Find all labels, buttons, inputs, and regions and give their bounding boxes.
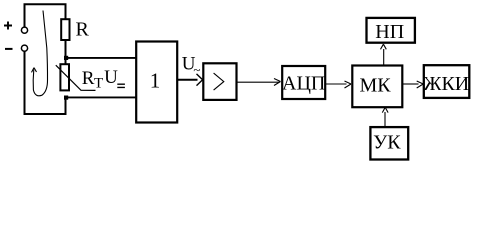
- svg-text:R: R: [76, 18, 90, 40]
- arrowhead into ADC: [274, 79, 281, 86]
- arrowhead into NP: [381, 44, 387, 49]
- svg-text:T: T: [94, 76, 103, 92]
- junction bottom: [64, 96, 68, 100]
- arrowhead into MK: [345, 81, 352, 88]
- block UK (УК): [370, 127, 408, 159]
- wire R to RT: [65, 40, 67, 64]
- wire left-bottom: minus terminal down, along bottom, up to RT: [25, 51, 66, 114]
- svg-text:АЦП: АЦП: [282, 72, 325, 94]
- block 1: [136, 42, 177, 123]
- svg-text:1: 1: [150, 68, 161, 92]
- block NP (НП): [367, 18, 415, 43]
- wire top tap to block 1: [66, 57, 137, 59]
- svg-text:НП: НП: [375, 21, 404, 43]
- block LCD (ЖКИ): [424, 65, 470, 98]
- arrowhead into amp: [197, 74, 203, 86]
- sensor hook curve: [33, 11, 47, 96]
- terminal minus: [21, 45, 27, 51]
- wire bottom tap to block 1: [66, 96, 137, 98]
- thermistor RT: [60, 64, 69, 90]
- block MK (МК): [352, 66, 402, 108]
- svg-text:R: R: [82, 68, 95, 89]
- wire UK to MK: [384, 112, 386, 127]
- svg-text:МК: МК: [359, 74, 391, 96]
- resistor R: [61, 19, 69, 40]
- amplifier symbol: [214, 73, 224, 90]
- wire MK to LCD: [403, 83, 419, 85]
- svg-text:УК: УК: [373, 132, 401, 154]
- wire MK to NP: [383, 49, 385, 65]
- wire top-left: plus terminal up and over to resistor R: [25, 4, 66, 27]
- thermistor diagonal: [56, 65, 96, 90]
- wire block1 to amp: [178, 79, 198, 81]
- arrowhead into LCD: [417, 81, 424, 88]
- wire amp to ADC: [237, 81, 280, 83]
- terminal plus: [21, 27, 27, 33]
- svg-text:U: U: [104, 67, 118, 88]
- label +: [4, 22, 12, 30]
- svg-text:ЖКИ: ЖКИ: [424, 73, 470, 95]
- arrowhead into MK bottom: [382, 107, 388, 112]
- block ADC (АЦП): [282, 66, 325, 99]
- junction top: [64, 56, 68, 60]
- sensor hook arrowhead: [32, 68, 37, 73]
- wire ADC to MK: [326, 83, 347, 85]
- label -: [5, 48, 13, 50]
- amplifier box: [203, 63, 236, 100]
